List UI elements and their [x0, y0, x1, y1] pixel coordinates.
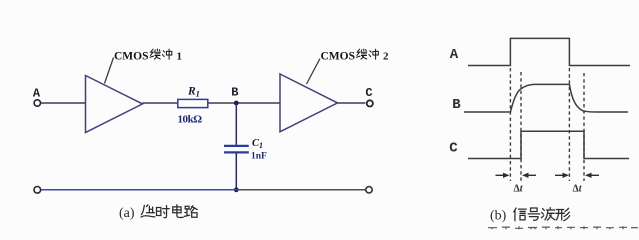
arrow left toward C-rise line [522, 173, 536, 178]
caption (a) 延时电路 [119, 205, 197, 221]
label CMOS 缓冲2 [321, 49, 390, 62]
svg-text:2: 2 [383, 51, 389, 63]
svg-text:(a): (a) [119, 206, 135, 221]
svg-text:C: C [365, 86, 372, 100]
bottom rail left (blue) [41, 189, 237, 191]
svg-text:B: B [231, 86, 238, 100]
capacitor C1 plates [224, 145, 249, 147]
svg-text:10kΩ: 10kΩ [178, 114, 203, 126]
arrow left toward C-fall line [585, 173, 599, 178]
svg-text:1nF: 1nF [251, 152, 267, 162]
wire buffer1 to R1 [143, 102, 178, 104]
svg-text:A: A [450, 47, 459, 63]
dashed line at C rise [520, 72, 522, 181]
op-amp U2 CMOS buffer 2 [280, 74, 338, 132]
label CMOS 缓冲1 [114, 49, 182, 62]
svg-text:C1: C1 [252, 138, 263, 150]
right rail terminal circle [366, 187, 372, 193]
clipped bottom text line [488, 226, 638, 229]
wire B down to C1 [235, 103, 237, 145]
arrow right toward A-fall line [555, 173, 569, 178]
dashed line at C fall [583, 73, 585, 181]
op-amp U1 CMOS buffer 1 [86, 76, 143, 133]
leader line label 1 [105, 58, 114, 84]
wire C1 down to rail [235, 152, 237, 189]
junction dot on rail [234, 187, 239, 192]
dashed line at A fall [568, 68, 570, 181]
svg-text:CMOS: CMOS [114, 51, 149, 63]
svg-text:A: A [33, 87, 41, 101]
node A terminal circle [34, 100, 40, 106]
left rail terminal circle [34, 187, 41, 194]
waveform B trace [464, 84, 628, 112]
wire R1 to buffer2 [208, 102, 280, 104]
svg-text:C: C [449, 141, 458, 157]
node C terminal circle [367, 100, 373, 106]
leader line label 2 [307, 59, 321, 85]
dashed line at A rise [509, 68, 511, 181]
bottom rail right (gray) [236, 189, 365, 191]
arrow right toward A-rise line [496, 173, 510, 178]
caption (b) 信号波形 [490, 208, 570, 224]
wire A to buffer1 [41, 102, 86, 104]
node B junction dot [234, 101, 239, 106]
svg-text:CMOS: CMOS [321, 51, 356, 63]
svg-text:1: 1 [177, 51, 183, 63]
svg-text:Δt: Δt [572, 184, 582, 195]
svg-text:(b): (b) [490, 209, 507, 224]
svg-text:R1: R1 [187, 86, 200, 99]
svg-text:B: B [452, 97, 461, 113]
waveform C trace [468, 131, 629, 158]
resistor R1 [178, 99, 208, 107]
wire buffer2 to C terminal [338, 102, 366, 104]
waveform A trace [468, 38, 630, 65]
svg-text:Δt: Δt [513, 184, 523, 195]
